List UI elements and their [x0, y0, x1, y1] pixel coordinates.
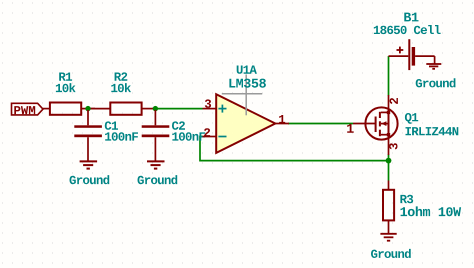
ground (C1): [80, 161, 98, 168]
value IRLIZ44N: [406, 127, 459, 135]
ground (battery): [426, 56, 441, 69]
wire source to sense node: [388, 155, 390, 161]
label B1: [404, 13, 418, 22]
value 1ohm 10W: [401, 206, 462, 216]
op-amp U1A: [203, 94, 290, 153]
wire battery to drain: [388, 56, 390, 95]
capacitor C1: [74, 110, 102, 161]
resistor R3: [383, 181, 394, 234]
wire feedback from pin2 down and right to sense node: [200, 137, 389, 161]
value 18650 Cell: [374, 25, 441, 34]
value 100nF (C1): [105, 132, 138, 140]
junction node B: [153, 106, 158, 111]
label U1A: [237, 66, 257, 74]
value 10k (R2): [111, 83, 131, 92]
junction node A: [85, 106, 90, 111]
label C1: [105, 121, 118, 129]
pin 1 (gate): [347, 124, 354, 133]
cursor cross anchor: [222, 75, 262, 116]
wire opamp output to gate: [288, 123, 353, 125]
text Ground (R3): [371, 249, 411, 258]
pin 2 (drain): [390, 98, 398, 104]
label Q1: [405, 113, 418, 124]
label R2: [115, 72, 128, 80]
pin 3 (source): [389, 143, 397, 149]
text Ground (C2): [138, 175, 178, 184]
wire PWM/R1/R2/opamp main net: [152, 108, 203, 110]
value 100nF (C2): [172, 132, 205, 140]
pin 2: [204, 128, 210, 136]
battery B1: [389, 39, 435, 70]
capacitor C2: [142, 110, 170, 161]
wire sense node to R3: [388, 161, 390, 181]
pin 3: [205, 99, 211, 107]
label C2: [172, 121, 185, 129]
resistor R2: [88, 103, 154, 115]
pin 1 (opamp out): [279, 115, 285, 123]
label R3: [400, 195, 413, 203]
value LM358: [229, 79, 266, 88]
resistor R1: [43, 103, 95, 115]
text Ground (C1): [70, 175, 110, 184]
text Ground (battery): [416, 78, 456, 87]
transistor Q1: [353, 95, 398, 155]
label R1: [59, 73, 72, 81]
ground (C2): [147, 161, 165, 168]
value 10k (R1): [56, 83, 76, 92]
global label PWM: [12, 103, 44, 115]
ground (R3): [380, 234, 396, 241]
junction sense node: [386, 158, 392, 164]
